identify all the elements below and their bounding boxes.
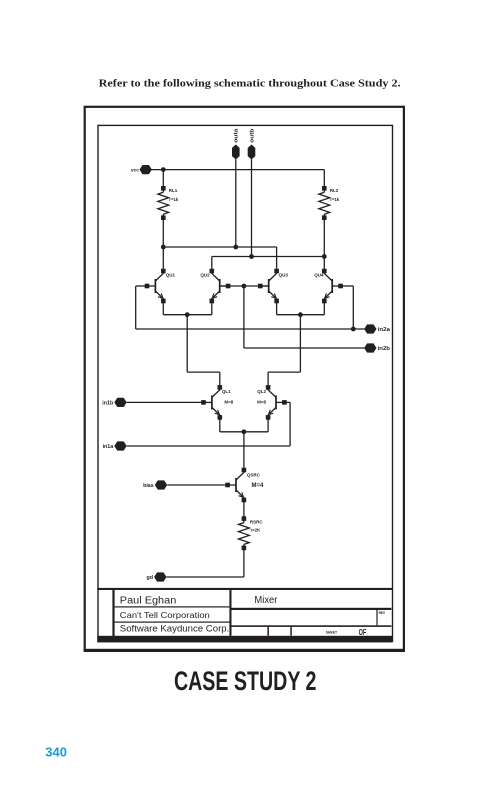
svg-text:QU4: QU4	[314, 272, 324, 277]
junction in2a	[351, 327, 356, 332]
transistor QSRC	[225, 468, 246, 503]
svg-text:QU2: QU2	[200, 273, 210, 278]
svg-text:RL1: RL1	[169, 188, 178, 193]
label outb	[249, 128, 255, 143]
junction tail	[242, 429, 247, 434]
svg-text:QSRC: QSRC	[247, 472, 261, 477]
junction vcc-RL1	[161, 167, 166, 172]
title block left heavy line	[112, 588, 114, 642]
pin bias	[143, 480, 167, 489]
svg-text:Can't Tell Corporation: Can't Tell Corporation	[120, 610, 210, 620]
svg-text:r=1k: r=1k	[169, 197, 179, 202]
svg-text:QU3: QU3	[279, 272, 289, 277]
label REV	[379, 611, 386, 615]
titleblock company2	[120, 623, 230, 633]
wire net bias	[167, 484, 230, 486]
svg-text:OF: OF	[359, 628, 367, 637]
svg-text:CASE STUDY 2: CASE STUDY 2	[174, 666, 317, 696]
label RL2	[330, 188, 340, 202]
wire net in1b	[127, 401, 205, 403]
pin in1b	[102, 398, 126, 407]
svg-text:outa: outa	[234, 127, 240, 142]
svg-text:in1a: in1a	[103, 444, 114, 450]
label QU4	[314, 272, 324, 277]
wire net outa	[163, 247, 276, 269]
pin outb	[248, 145, 256, 160]
titleblock name	[120, 595, 177, 606]
junction left emitters	[185, 312, 190, 317]
title block right row divider 2	[232, 625, 392, 627]
page number	[45, 744, 67, 759]
svg-text:gd: gd	[147, 575, 153, 581]
junction bases QU2-QU3	[242, 284, 247, 289]
title block main divider	[229, 588, 231, 636]
svg-text:r=1k: r=1k	[330, 197, 340, 202]
title block left row divider 1	[115, 606, 230, 607]
label RL1	[169, 188, 179, 202]
pin in2b	[364, 343, 391, 352]
transistor QU4	[322, 269, 343, 304]
wire right emitters	[268, 303, 324, 386]
svg-text:vcc: vcc	[131, 169, 139, 174]
title block left row divider 2	[115, 622, 230, 623]
junction outb stem	[249, 254, 254, 259]
svg-text:in2b: in2b	[378, 346, 391, 352]
pin vcc	[131, 165, 152, 174]
svg-text:Software Kaydunce Corp.: Software Kaydunce Corp.	[120, 623, 230, 633]
transistor QU3	[258, 269, 279, 304]
svg-text:r=2K: r=2K	[251, 528, 262, 533]
resistor RSRC	[239, 502, 250, 578]
header caption	[99, 77, 401, 89]
wire left emitters	[163, 303, 220, 386]
svg-text:RL2: RL2	[330, 188, 339, 193]
titleblock title Mixer	[254, 595, 278, 606]
svg-text:outb: outb	[249, 128, 255, 143]
junction outa stem	[233, 245, 238, 250]
transistor QL1	[201, 385, 222, 420]
svg-text:Paul Eghan: Paul Eghan	[120, 595, 177, 606]
label RSRC	[250, 520, 264, 533]
wire net in2b	[220, 286, 365, 348]
svg-text:SHEET: SHEET	[326, 631, 338, 635]
svg-text:QU1: QU1	[166, 273, 176, 278]
pin in1a	[103, 441, 127, 450]
title block right row divider 1	[232, 608, 392, 610]
svg-text:QL1: QL1	[222, 389, 231, 394]
svg-text:Refer to the following schemat: Refer to the following schematic through…	[99, 77, 401, 89]
wire outa stem	[235, 159, 237, 247]
label QL1	[222, 389, 234, 404]
inner border frame	[98, 125, 393, 641]
title block top line	[97, 588, 392, 590]
outer border frame	[84, 107, 405, 652]
resistor RL2	[319, 170, 330, 269]
junction outa-RL1	[161, 245, 166, 250]
wire vcc rail	[151, 169, 324, 171]
svg-text:M=8: M=8	[224, 399, 233, 404]
label QU3	[279, 272, 289, 277]
label SHEET	[326, 631, 338, 635]
rev box line	[376, 610, 377, 625]
titleblock company	[120, 610, 210, 620]
pin in2a	[364, 324, 391, 333]
svg-text:Mixer: Mixer	[254, 595, 278, 606]
junction outb-RL2	[322, 254, 327, 259]
case study heading	[174, 666, 317, 696]
svg-text:340: 340	[45, 744, 67, 759]
transistor QU2	[210, 269, 231, 304]
title block row3 divider b	[290, 627, 292, 636]
svg-text:in2a: in2a	[378, 327, 391, 333]
wire tail node	[220, 420, 268, 469]
transistor QU1	[145, 269, 166, 304]
label QU2	[200, 273, 210, 278]
wire net outb	[212, 257, 324, 269]
label QSRC	[247, 472, 264, 489]
title block row3 divider a	[267, 627, 269, 636]
label QL2	[257, 389, 266, 404]
wire net gd	[167, 576, 244, 578]
svg-text:M=4: M=4	[252, 483, 265, 489]
wire net in1a	[127, 402, 290, 446]
svg-text:REV: REV	[379, 611, 386, 615]
svg-text:M=8: M=8	[257, 399, 266, 404]
resistor RL1	[158, 170, 169, 269]
junction right emitters	[298, 312, 303, 317]
label outa	[234, 127, 240, 142]
title block bottom bar	[97, 636, 392, 643]
pin gd	[147, 572, 167, 581]
label QU1	[166, 273, 176, 278]
svg-text:QL2: QL2	[257, 389, 266, 394]
wire net in2a	[136, 286, 365, 329]
pin outa	[232, 145, 240, 160]
svg-text:bias: bias	[143, 483, 154, 489]
label OF	[359, 628, 367, 637]
wire outb stem	[251, 159, 253, 256]
transistor QL2	[266, 385, 287, 420]
svg-text:in1b: in1b	[102, 400, 114, 406]
svg-text:RSRC: RSRC	[250, 520, 264, 525]
